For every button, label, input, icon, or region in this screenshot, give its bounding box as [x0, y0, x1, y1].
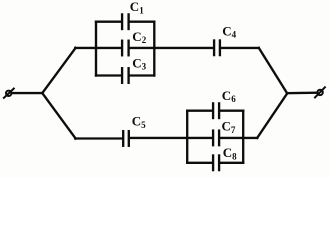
- wire C2 row right: [130, 47, 214, 49]
- svg-text:C7: C7: [222, 119, 236, 135]
- wire right diagonal down: [259, 48, 287, 94]
- wire bottom diagonal up to right node: [257, 93, 287, 137]
- svg-text:C4: C4: [222, 23, 236, 39]
- right terminal: [315, 87, 325, 97]
- capacitor C5: [123, 131, 129, 146]
- capacitor C2: [122, 41, 129, 56]
- wire C5 to bottom block: [130, 137, 212, 139]
- wire C1 row left: [96, 21, 121, 23]
- wire left diagonal down: [42, 93, 75, 138]
- wire C8 row right: [220, 162, 243, 164]
- wire bottom rail left: [75, 137, 122, 139]
- wire left terminal to left node: [12, 92, 43, 94]
- wire bottom block right edge: [242, 111, 244, 163]
- capacitor C8: [213, 156, 219, 171]
- wire top rail into parallel block: [75, 47, 121, 49]
- wire bottom block left edge: [186, 111, 188, 163]
- wire left diagonal up: [42, 48, 75, 93]
- wire C4 to top right corner: [221, 47, 259, 49]
- capacitor C1: [122, 14, 129, 29]
- wire C6 row right: [220, 110, 243, 112]
- wire C7 row right: [220, 137, 257, 139]
- svg-text:C6: C6: [222, 88, 236, 104]
- capacitor C7: [213, 131, 219, 146]
- wire C3 row right: [130, 74, 155, 76]
- wire top block left edge: [95, 22, 97, 76]
- wire right node to right terminal: [287, 92, 317, 95]
- wire C3 row left: [96, 74, 121, 76]
- svg-text:C1: C1: [130, 0, 144, 15]
- capacitor C4: [214, 41, 220, 56]
- capacitor C6: [213, 103, 219, 118]
- svg-text:C8: C8: [223, 145, 237, 161]
- wire top block right edge: [153, 22, 155, 76]
- wire C6 row left: [187, 110, 212, 112]
- svg-text:C3: C3: [132, 55, 146, 71]
- svg-text:C2: C2: [132, 29, 146, 45]
- wire C1 row right: [130, 21, 155, 23]
- left terminal: [4, 89, 14, 98]
- capacitor C3: [122, 68, 129, 83]
- wire C8 row left: [187, 162, 212, 164]
- svg-text:C5: C5: [132, 114, 146, 130]
